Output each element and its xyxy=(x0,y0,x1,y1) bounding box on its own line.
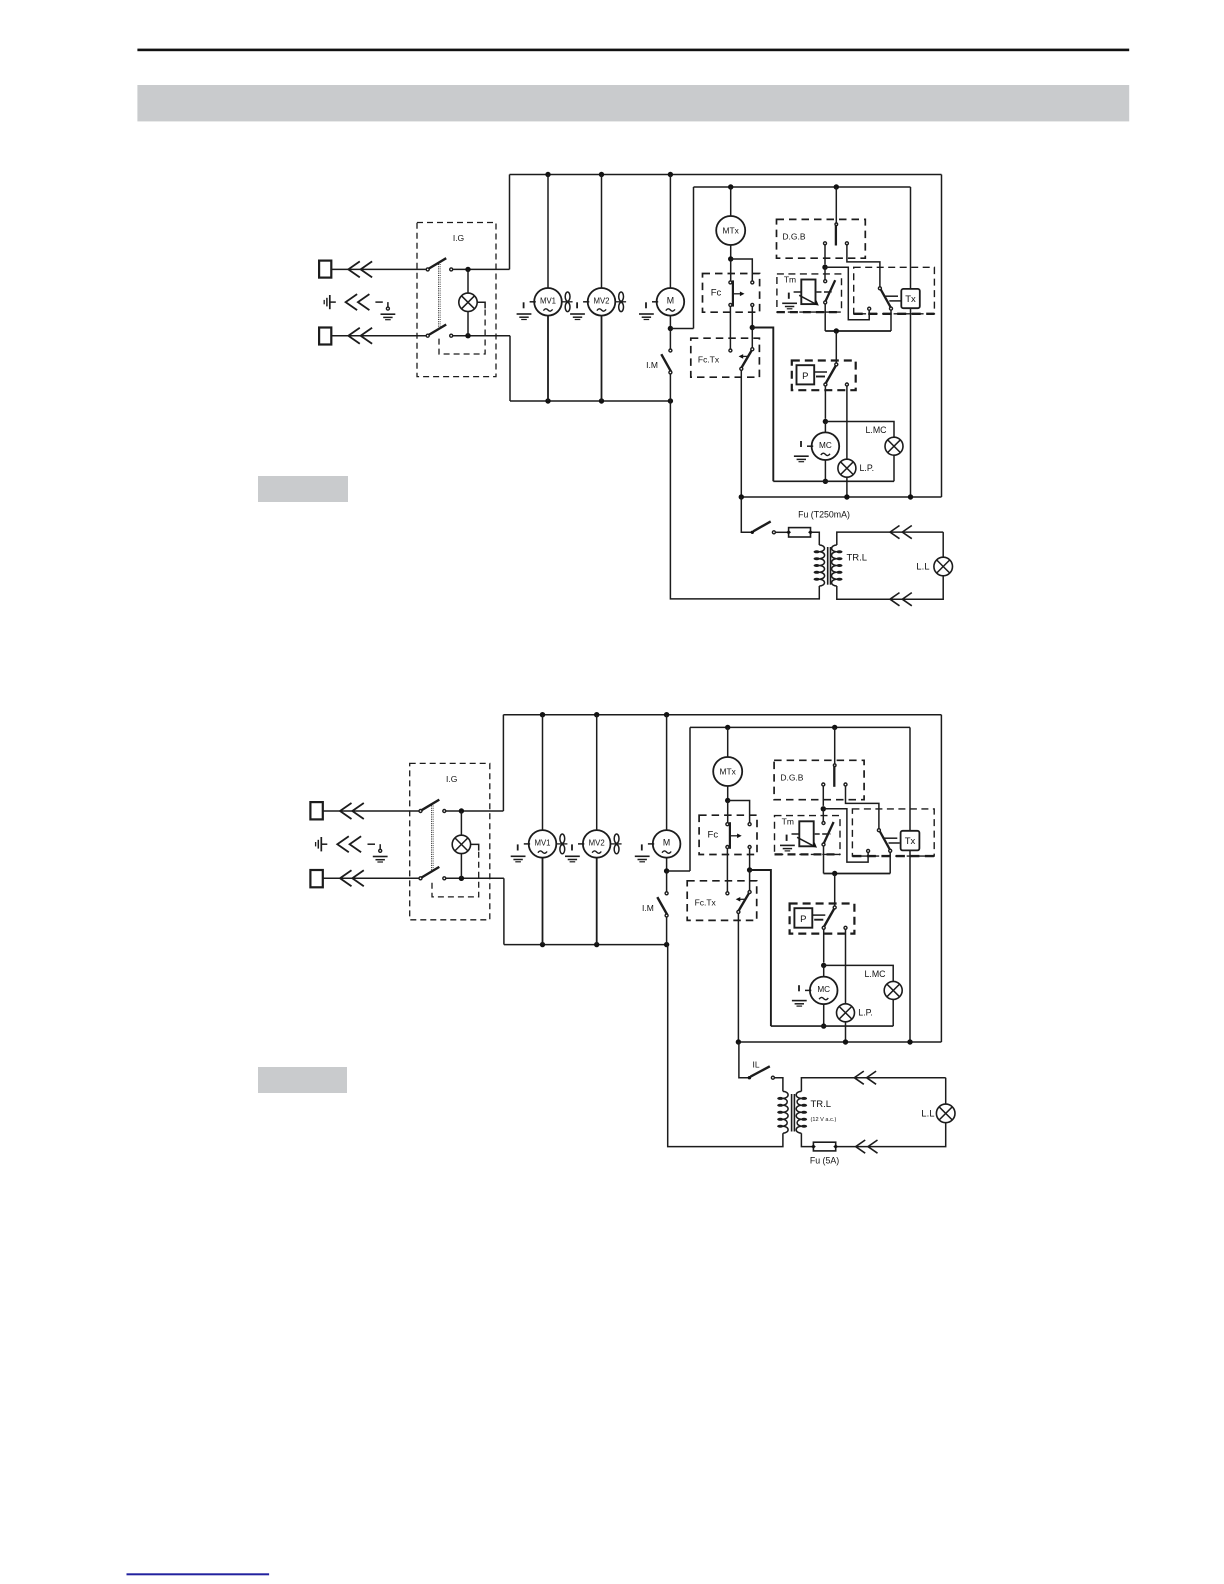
switch Fc.Tx left contact (top diagram) xyxy=(729,349,732,352)
chassis ground of earth lead (bottom diagram) xyxy=(373,856,388,858)
fan motor MV2 (top diagram) xyxy=(588,288,616,316)
node MTx / Fc branch (top diagram) xyxy=(728,256,733,261)
node pole 2 / pilot lamp (top diagram) xyxy=(465,333,470,338)
wire MV2 return lead (top diagram) xyxy=(601,316,603,401)
node D.G.B output (bottom diagram) xyxy=(821,806,826,811)
chassis ground of MC (top diagram) xyxy=(807,445,813,447)
timer P body (top diagram) xyxy=(797,365,815,384)
switch Fc.Tx upper contact (bottom diagram) xyxy=(748,891,751,894)
wire L.MC branch (top diagram) xyxy=(825,422,894,438)
node pole 2 / pilot lamp (bottom diagram) xyxy=(459,876,464,881)
wire earth dash segment (bottom diagram) xyxy=(368,843,376,845)
probe switch enclosure bottom edge (bottom diagram) xyxy=(852,855,934,857)
node MC / L.MC (bottom diagram) xyxy=(821,963,826,968)
wire I.M to motor bus (bottom diagram) xyxy=(666,917,668,945)
wire pilot lamp side stub (bottom diagram) xyxy=(471,844,479,850)
probe switch enclosure (Tx) (top diagram) xyxy=(854,267,935,314)
svg-text:TR.L: TR.L xyxy=(811,1099,832,1110)
switch Tx moving end contact (top diagram) xyxy=(890,307,893,310)
switch I.M upper contact (bottom diagram) xyxy=(665,892,668,895)
wire control box right rail upper (bottom diagram) xyxy=(909,727,911,830)
connector chevrons lower lead (bottom diagram) xyxy=(340,870,352,886)
switch I.G pole 1 blade (bottom diagram) xyxy=(422,800,440,811)
mechanical link P lower (top diagram) xyxy=(816,376,825,378)
waveguide switch D.G.B enclosure (bottom diagram) xyxy=(774,760,864,799)
switch Fc left upper contact (top diagram) xyxy=(729,281,732,284)
fan blades of MV2 (bottom diagram) xyxy=(611,843,622,845)
node top rail / MTx (top diagram) xyxy=(728,184,733,189)
switch Fc right upper contact (bottom diagram) xyxy=(748,823,751,826)
motor M (turntable) (top diagram) xyxy=(657,288,685,316)
node bus / Fc.Tx (bottom diagram) xyxy=(736,1039,741,1044)
waveguide switch D.G.B enclosure (top diagram) xyxy=(777,219,866,258)
node pole 1 / pilot lamp (bottom diagram) xyxy=(459,808,464,813)
wire M supply lead (bottom diagram) xyxy=(666,715,668,830)
lamp switch IL contact (bottom diagram) xyxy=(771,1076,774,1079)
lamp switch IL pivot (bottom diagram) xyxy=(748,1076,751,1079)
thermostat Tm actuator diagonal (bottom diagram) xyxy=(797,837,814,846)
wire node to P switch (top diagram) xyxy=(835,331,837,363)
switch I.G pole 1 contact (top diagram) xyxy=(450,268,453,271)
svg-text:MV2: MV2 xyxy=(589,839,605,848)
wire motor return bus (top diagram) xyxy=(510,400,670,402)
mechanical link Tm to switch (top diagram) xyxy=(817,291,833,293)
wire I.G pole 2 output (top diagram) xyxy=(453,335,510,337)
lamp L.MC (top diagram) xyxy=(885,437,903,455)
wire node to MC (bottom diagram) xyxy=(823,965,825,976)
wire Tm pivot down (top diagram) xyxy=(824,304,826,331)
wire Fc.Tx to lamp bus (top diagram) xyxy=(740,370,742,497)
node motor bus / I.M (bottom diagram) xyxy=(664,942,669,947)
switch Fc right upper contact (top diagram) xyxy=(751,281,754,284)
node top rail / D.G.B (bottom diagram) xyxy=(832,725,837,730)
node top rail / MTx (bottom diagram) xyxy=(725,725,730,730)
switch Tm upper contact (top diagram) xyxy=(824,280,827,283)
wire MC lower lead (top diagram) xyxy=(824,460,826,481)
node top rail / D.G.B (top diagram) xyxy=(834,184,839,189)
wire I.G pole 2 output (bottom diagram) xyxy=(446,877,504,879)
wire node to Tx left throw (top diagram) xyxy=(825,267,869,320)
actuator arrow of Fc.Tx (bottom diagram) xyxy=(739,898,745,900)
chassis ground of MV2 (bottom diagram) xyxy=(578,843,584,845)
lamp L.P (top diagram) xyxy=(838,459,856,477)
switch P blade (bottom diagram) xyxy=(824,909,834,927)
earth drop wire to chassis (bottom diagram) xyxy=(379,844,381,849)
connector chevrons secondary bottom (bottom diagram) xyxy=(856,1140,866,1153)
footer link rule xyxy=(127,1573,270,1575)
wire Tx end contact down (bottom diagram) xyxy=(889,852,891,873)
lamp switch pivot (top diagram) xyxy=(751,531,754,534)
chassis ground of earth lead (top diagram) xyxy=(381,313,396,315)
node pole 1 / pilot lamp (top diagram) xyxy=(465,267,470,272)
wire Tx bottom link (bottom diagram) xyxy=(824,873,891,875)
node MC return (top diagram) xyxy=(823,479,828,484)
wire MTx lower lead (top diagram) xyxy=(730,245,732,259)
switch I.M blade (top diagram) xyxy=(661,354,671,371)
lamp L.P (bottom diagram) xyxy=(837,1004,855,1022)
svg-text:MV1: MV1 xyxy=(540,296,556,305)
wire M supply lead (top diagram) xyxy=(669,175,671,289)
switch P right contact (top diagram) xyxy=(845,383,848,386)
switch Tm blade (top diagram) xyxy=(826,280,836,301)
transformer TR.L primary coil (top diagram) xyxy=(819,545,824,586)
switch I.G pole 1 hinge (top diagram) xyxy=(426,268,429,271)
wire Tm pivot down (bottom diagram) xyxy=(823,846,825,874)
pilot lamp of I.G (top diagram) xyxy=(459,293,477,311)
door switch Fc enclosure (bottom diagram) xyxy=(699,815,757,854)
actuator arrow of Fc.Tx (top diagram) xyxy=(742,355,748,357)
wire MV2 return lead (bottom diagram) xyxy=(596,858,598,945)
cooling motor MC (top diagram) xyxy=(812,432,840,460)
wire fuse to transformer (top diagram) xyxy=(811,532,820,545)
wire MV1 supply lead (bottom diagram) xyxy=(542,715,544,830)
cooling motor MC (bottom diagram) xyxy=(810,977,838,1005)
protective earth symbol (bottom diagram) xyxy=(320,837,322,851)
wire D.G.B left output (bottom diagram) xyxy=(822,786,824,806)
wire MV1 return lead (bottom diagram) xyxy=(542,858,544,945)
connector chevrons secondary top (bottom diagram) xyxy=(854,1071,864,1084)
timer contact P enclosure (top diagram) xyxy=(792,361,856,391)
lamp sub-enclosure dashed boundary (bottom diagram) xyxy=(432,852,479,897)
node P branch (top diagram) xyxy=(834,328,839,333)
wire pilot lamp upper lead (top diagram) xyxy=(467,269,469,293)
node top bus / M (top diagram) xyxy=(668,172,673,177)
fuse Fu T250mA (top diagram) xyxy=(789,528,811,537)
wire D.G.B left output (top diagram) xyxy=(824,245,826,265)
svg-text:M: M xyxy=(667,295,674,305)
thermostat Tm actuator diagonal (top diagram) xyxy=(799,295,816,304)
switch D.G.B right contact (top diagram) xyxy=(845,242,848,245)
node top bus / MV2 (bottom diagram) xyxy=(594,712,599,717)
node bus / Fc.Tx (top diagram) xyxy=(739,494,744,499)
thermostat Tm enclosure (bottom diagram) xyxy=(775,816,841,855)
node P branch (bottom diagram) xyxy=(832,871,837,876)
svg-text:L.MC: L.MC xyxy=(864,969,886,979)
wire fuse to coil (bottom diagram) xyxy=(801,1133,813,1146)
wire MV1 return lead (top diagram) xyxy=(547,316,549,401)
wire MTx supply lead (top diagram) xyxy=(730,187,732,216)
fuse Fu 5A (bottom diagram) xyxy=(813,1142,835,1151)
wire control box right rail lower (top diagram) xyxy=(910,308,912,497)
connector chevrons earth lead (top diagram) xyxy=(346,294,358,310)
wire primary return (bottom diagram) xyxy=(668,945,783,1147)
wire MV2 supply lead (bottom diagram) xyxy=(596,715,598,830)
switch I.M upper contact (top diagram) xyxy=(669,349,672,352)
switch Fc blade (top diagram) xyxy=(732,280,734,306)
wire node to MC (top diagram) xyxy=(824,422,826,433)
wire node to Fc.Tx contact (top diagram) xyxy=(751,328,753,348)
section label box (bottom diagram) xyxy=(258,1067,347,1093)
switch Fc.Tx lower contact (bottom diagram) xyxy=(737,910,740,913)
probe Tx body (top diagram) xyxy=(901,289,920,308)
svg-text:L.L: L.L xyxy=(921,1109,934,1120)
wire P right contact to L.P (top diagram) xyxy=(846,386,848,459)
wire M lower lead (bottom diagram) xyxy=(666,858,668,871)
wire Fc left output (top diagram) xyxy=(729,306,731,349)
fan blades of MV1 (top diagram) xyxy=(562,301,573,303)
wire lamp circuit bus (bottom diagram) xyxy=(738,1041,941,1043)
switch I.G pole 2 hinge (bottom diagram) xyxy=(419,877,422,880)
motor M (turntable) (bottom diagram) xyxy=(653,830,681,858)
thermostat Tm body (bottom diagram) xyxy=(799,821,813,846)
switch Fc left lower contact (bottom diagram) xyxy=(726,846,729,849)
node MTx / Fc branch (bottom diagram) xyxy=(725,798,730,803)
switch Fc right lower contact (top diagram) xyxy=(751,303,754,306)
wire D.G.B supply lead (bottom diagram) xyxy=(834,727,836,764)
mechanical link Tx lower (top diagram) xyxy=(889,300,900,302)
connector chevrons upper lead (top diagram) xyxy=(348,261,360,277)
main switch I.G enclosure (bottom diagram) xyxy=(410,763,490,919)
svg-text:MC: MC xyxy=(817,985,830,994)
transformer TR.L primary coil (bottom diagram) xyxy=(783,1091,788,1133)
switch D.G.B right contact (bottom diagram) xyxy=(844,783,847,786)
switch Tx moving end contact (bottom diagram) xyxy=(889,849,892,852)
switch Fc.Tx lower contact (top diagram) xyxy=(740,367,743,370)
timer contact P enclosure (bottom diagram) xyxy=(790,904,855,934)
svg-text:D.G.B: D.G.B xyxy=(780,773,803,783)
wire L.MC lower lead (bottom diagram) xyxy=(892,1000,894,1027)
wire I.M to motor bus (top diagram) xyxy=(669,374,671,401)
svg-text:I.G: I.G xyxy=(453,233,464,243)
node top bus / MV2 (top diagram) xyxy=(599,172,604,177)
wire control box right rail lower (bottom diagram) xyxy=(909,850,911,1042)
svg-text:L.P.: L.P. xyxy=(858,1008,873,1018)
mechanical link Tm to switch (bottom diagram) xyxy=(815,833,831,835)
terminal block lower mains terminal (bottom diagram) xyxy=(310,870,322,887)
mechanical link Tx upper (top diagram) xyxy=(884,295,899,297)
switch P right contact (bottom diagram) xyxy=(844,926,847,929)
lamp switch blade (top diagram) xyxy=(753,521,770,531)
wire MV2 supply lead (top diagram) xyxy=(601,175,603,289)
switch I.M lower contact (bottom diagram) xyxy=(665,914,668,917)
wire Tx end contact down (top diagram) xyxy=(890,310,892,331)
switch D.G.B hinge contact (bottom diagram) xyxy=(833,764,836,767)
pilot lamp of I.G (bottom diagram) xyxy=(452,835,470,853)
transformer TR.L secondary coil (top diagram) xyxy=(832,545,837,586)
fan blades of MV1 (bottom diagram) xyxy=(557,843,568,845)
wire control box left rail (top diagram) xyxy=(693,187,695,329)
connector chevrons lower lead (top diagram) xyxy=(348,328,360,344)
door switch Fc enclosure (top diagram) xyxy=(703,274,760,313)
oven lamp L.L (top diagram) xyxy=(934,557,953,576)
wire Fc.Tx to lamp bus (bottom diagram) xyxy=(737,913,739,1042)
switch Tm blade (bottom diagram) xyxy=(824,822,834,843)
switch Tm pivot contact (top diagram) xyxy=(824,301,827,304)
wire node to Tx left throw (bottom diagram) xyxy=(823,809,868,862)
switch Fc left lower contact (top diagram) xyxy=(729,303,732,306)
node top bus / MV1 (bottom diagram) xyxy=(540,712,545,717)
wire D.G.B right output to Tx pivot (bottom diagram) xyxy=(846,786,879,829)
wire MTx to Fc left contact (top diagram) xyxy=(730,259,732,281)
chassis ground of MV2 (top diagram) xyxy=(583,301,589,303)
node motor bus / MV1 (bottom diagram) xyxy=(540,942,545,947)
switch Tx pivot contact (bottom diagram) xyxy=(877,829,880,832)
wire L.MC lower lead (top diagram) xyxy=(893,455,895,481)
switch Fc left upper contact (bottom diagram) xyxy=(726,823,729,826)
protective earth symbol (top diagram) xyxy=(329,295,331,309)
chassis ground of MV1 (bottom diagram) xyxy=(524,843,530,845)
wire M to I.M switch (top diagram) xyxy=(669,329,671,350)
wire outer right rail (bottom diagram) xyxy=(940,715,942,1042)
main switch I.G enclosure (top diagram) xyxy=(417,223,496,377)
svg-text:TR.L: TR.L xyxy=(847,553,868,564)
wire Tx bottom link (top diagram) xyxy=(825,330,891,332)
switch Fc.Tx blade (top diagram) xyxy=(742,351,752,368)
svg-text:Fc: Fc xyxy=(708,830,719,841)
svg-text:I.M: I.M xyxy=(642,903,654,913)
wire branch to Fc right contact (bottom diagram) xyxy=(728,801,750,823)
wire MTx lower lead (bottom diagram) xyxy=(727,786,729,800)
wire L.P lower lead (top diagram) xyxy=(846,477,848,497)
wire M lower lead (top diagram) xyxy=(669,316,671,329)
terminal block upper mains terminal (top diagram) xyxy=(319,261,331,278)
wire pilot lamp side stub (top diagram) xyxy=(477,302,485,308)
wire motor return bus (bottom diagram) xyxy=(504,944,667,946)
wire MTx to Fc left contact (bottom diagram) xyxy=(727,801,729,823)
node top bus / MV1 (top diagram) xyxy=(545,172,550,177)
timer P body (bottom diagram) xyxy=(794,908,812,928)
wire MTx supply lead (bottom diagram) xyxy=(727,727,729,757)
svg-text:Fc.Tx: Fc.Tx xyxy=(695,897,717,907)
switch D.G.B hinge contact (top diagram) xyxy=(835,223,838,226)
node motor bus / MV2 (top diagram) xyxy=(599,398,604,403)
svg-text:Fu (5A): Fu (5A) xyxy=(810,1156,839,1166)
wire branch M to control box (bottom diagram) xyxy=(667,870,690,872)
svg-text:MC: MC xyxy=(819,441,832,450)
wire secondary top lead (bottom diagram) xyxy=(801,1078,945,1092)
earth dash of Tm (bottom diagram) xyxy=(786,835,788,841)
node D.G.B output (top diagram) xyxy=(822,265,827,270)
wire node to Tm contact (bottom diagram) xyxy=(822,809,824,822)
svg-text:Tm: Tm xyxy=(782,816,794,826)
magnetron fan motor MTx (bottom diagram) xyxy=(713,757,742,786)
header rule xyxy=(137,49,1129,52)
wire top supply bus (top diagram) xyxy=(510,174,942,176)
switch Fc.Tx upper contact (top diagram) xyxy=(751,348,754,351)
section label box (top diagram) xyxy=(258,476,348,502)
mechanical link P upper (top diagram) xyxy=(815,371,827,373)
lamp sub-enclosure dashed boundary (top diagram) xyxy=(439,310,485,355)
node earth terminal (top diagram) xyxy=(386,307,389,310)
wire secondary top lead (top diagram) xyxy=(837,532,943,545)
wire upper mains lead (bottom diagram) xyxy=(323,810,420,812)
wire primary return (top diagram) xyxy=(670,401,819,599)
lamp L.MC (bottom diagram) xyxy=(884,981,902,999)
wire control box left rail (bottom diagram) xyxy=(689,727,691,871)
wire D.G.B supply lead (top diagram) xyxy=(835,187,837,223)
wire control box top rail (top diagram) xyxy=(694,186,911,188)
node motor bus / I.M (top diagram) xyxy=(668,398,673,403)
node M / control branch (bottom diagram) xyxy=(664,868,669,873)
chassis ground of M (bottom diagram) xyxy=(648,843,654,845)
wire MC return rail (bottom diagram) xyxy=(771,1025,893,1027)
node motor bus / MV2 (bottom diagram) xyxy=(594,942,599,947)
wire IL to transformer (bottom diagram) xyxy=(774,1078,783,1092)
switch D.G.B blade (top diagram) xyxy=(835,226,837,246)
wire MV1 supply lead (top diagram) xyxy=(547,175,549,289)
switch Tx pivot contact (top diagram) xyxy=(878,287,881,290)
probe switch enclosure bottom edge (top diagram) xyxy=(854,313,935,315)
wire Fc right output (top diagram) xyxy=(751,306,753,327)
wire L.P lower lead (bottom diagram) xyxy=(845,1022,847,1042)
chassis ground of Tm (top diagram) xyxy=(782,302,797,304)
svg-text:Fc: Fc xyxy=(711,288,722,299)
fan motor MV1 (top diagram) xyxy=(534,288,562,316)
wire top supply bus (bottom diagram) xyxy=(503,714,941,716)
actuator arrow of Fc (bottom diagram) xyxy=(731,835,738,837)
probe Tx body (bottom diagram) xyxy=(901,831,920,851)
wire L.L return (top diagram) xyxy=(837,576,943,599)
wire MC lower lead (bottom diagram) xyxy=(823,1005,825,1027)
wire P pivot to MC node (top diagram) xyxy=(824,386,826,419)
switch D.G.B left contact (top diagram) xyxy=(824,242,827,245)
wire bus to lamp switch IL (bottom diagram) xyxy=(739,1042,748,1078)
chassis ground of Tm (bottom diagram) xyxy=(780,844,795,846)
connector chevrons secondary top (top diagram) xyxy=(890,526,900,539)
wire control box top rail (bottom diagram) xyxy=(690,726,910,728)
wire I.G pole 1 output (bottom diagram) xyxy=(446,810,504,812)
switch Tx blade (bottom diagram) xyxy=(880,832,890,850)
wire D.G.B right output to Tx pivot (top diagram) xyxy=(847,245,880,287)
svg-text:M: M xyxy=(663,838,670,848)
wire Tm left lead (bottom diagram) xyxy=(792,833,800,835)
wire Tm left lead (top diagram) xyxy=(794,291,802,293)
svg-text:IL: IL xyxy=(752,1060,759,1070)
thermostat Tm enclosure bottom edge (bottom diagram) xyxy=(775,853,841,855)
switch I.G pole 2 contact (bottom diagram) xyxy=(443,877,446,880)
wire upper mains lead (top diagram) xyxy=(331,268,427,270)
fan motor MV2 (bottom diagram) xyxy=(583,830,611,858)
wire P right contact to L.P (bottom diagram) xyxy=(845,929,847,1003)
magnetron fan motor MTx (top diagram) xyxy=(716,216,745,245)
terminal block upper mains terminal (bottom diagram) xyxy=(310,802,322,819)
earth drop wire to chassis (top diagram) xyxy=(387,302,389,307)
node MC return (bottom diagram) xyxy=(821,1023,826,1028)
wire node to Tm contact (top diagram) xyxy=(824,267,826,280)
svg-text:MTx: MTx xyxy=(723,226,740,236)
wire L.MC branch (bottom diagram) xyxy=(824,965,894,981)
wire pilot lamp lower lead (top diagram) xyxy=(467,312,469,336)
switch I.G pole 1 hinge (bottom diagram) xyxy=(419,810,422,813)
terminal block lower mains terminal (top diagram) xyxy=(319,328,331,345)
svg-text:Tx: Tx xyxy=(905,836,916,847)
node bus / L.P (bottom diagram) xyxy=(843,1039,848,1044)
node Fc.Tx / lamp branch (top diagram) xyxy=(750,325,755,330)
wire pilot lamp upper lead (bottom diagram) xyxy=(460,811,462,835)
svg-text:MV1: MV1 xyxy=(534,839,550,848)
switch Tx left throw contact (bottom diagram) xyxy=(867,849,870,852)
svg-text:I.M: I.M xyxy=(646,360,658,370)
wire branch to oven lamp circuit (bottom diagram) xyxy=(750,870,771,1026)
switch I.M lower contact (top diagram) xyxy=(669,371,672,374)
mechanical link Tx lower (bottom diagram) xyxy=(889,842,900,844)
wire branch to oven lamp circuit (top diagram) xyxy=(752,328,773,482)
fan blades of MV2 (top diagram) xyxy=(615,301,626,303)
switch I.G pole 1 blade (top diagram) xyxy=(429,258,446,268)
wire MC return rail (top diagram) xyxy=(773,480,894,482)
mechanical link P upper (bottom diagram) xyxy=(813,914,826,916)
svg-text:Fc.Tx: Fc.Tx xyxy=(698,354,720,364)
chassis ground of M (top diagram) xyxy=(652,301,658,303)
node bus / right rail (bottom diagram) xyxy=(907,1039,912,1044)
switch Tm upper contact (bottom diagram) xyxy=(822,822,825,825)
svg-text:L.P.: L.P. xyxy=(860,463,875,473)
mechanical link P lower (bottom diagram) xyxy=(814,919,823,921)
wire phase riser from I.G to top bus (bottom diagram) xyxy=(502,715,504,811)
svg-text:MV2: MV2 xyxy=(593,296,609,305)
wire control box right rail upper (top diagram) xyxy=(910,187,912,289)
wire to lamp L.L (bottom diagram) xyxy=(945,1078,947,1104)
